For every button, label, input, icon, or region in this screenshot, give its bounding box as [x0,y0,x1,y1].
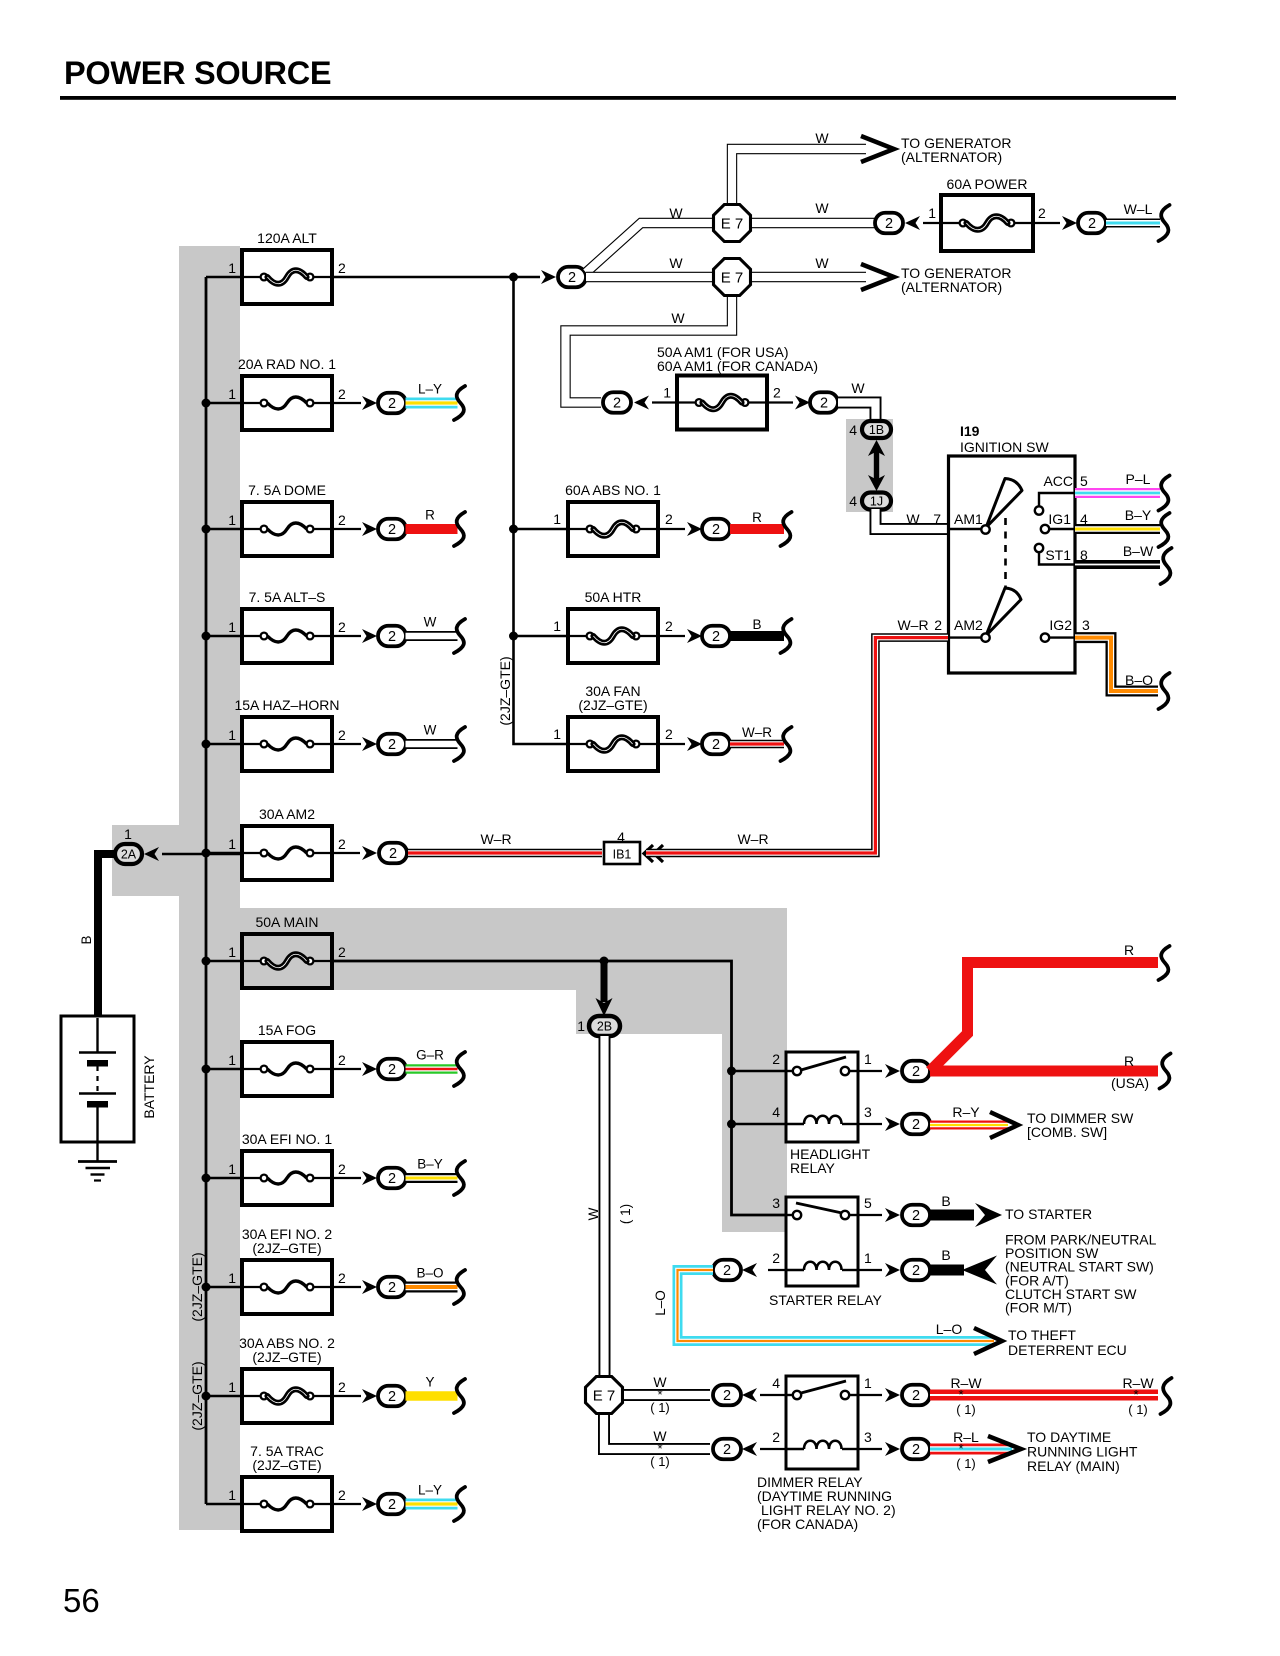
svg-text:2: 2 [772,1250,780,1266]
svg-text:2: 2 [613,396,621,412]
svg-text:E 7: E 7 [721,216,744,233]
starter relay coil [786,1269,804,1271]
svg-text:2: 2 [338,386,346,402]
harness shading main vertical band [179,246,240,1530]
svg-text:R–W: R–W [950,1375,982,1391]
svg-text:1: 1 [864,1375,872,1391]
svg-text:2: 2 [388,1171,396,1187]
svg-text:2: 2 [388,1497,396,1513]
ground symbol [78,1160,117,1163]
wire W from junction connector to E7 no.2 [586,272,712,282]
svg-text:120A ALT: 120A ALT [257,230,317,246]
connector 2 dimmer pin 1 [858,1394,882,1396]
svg-text:2: 2 [912,1442,920,1458]
harness shading 1B-1J junction block [846,419,893,512]
svg-text:R: R [1124,942,1134,958]
svg-text:2: 2 [388,737,396,753]
svg-text:B–Y: B–Y [1125,507,1152,523]
svg-text:2: 2 [388,629,396,645]
svg-text:2A: 2A [121,848,137,862]
dimmer relay coil [786,1448,804,1450]
svg-text:W: W [424,615,437,630]
svg-text:[COMB. SW]: [COMB. SW] [1027,1124,1107,1140]
svg-text:B: B [79,935,94,944]
svg-text:2: 2 [712,737,720,753]
wire output of 60A ABS NO. 1 (R) [658,528,685,530]
svg-text:P–L: P–L [1126,471,1151,487]
svg-text:W: W [671,310,685,326]
svg-text:2: 2 [772,1429,780,1445]
starter relay switch [786,1214,793,1216]
svg-text:2: 2 [338,1487,346,1503]
svg-text:(2JZ–GTE): (2JZ–GTE) [189,1361,205,1430]
svg-text:W–L: W–L [1124,201,1153,217]
node junctions to headlight relay [727,1067,736,1076]
wire output of 7. 5A DOME (R) [332,528,361,530]
svg-text:2: 2 [338,944,346,960]
svg-text:2: 2 [338,836,346,852]
ignition switch IG2 contact [1041,633,1049,641]
svg-text:30A EFI NO. 1: 30A EFI NO. 1 [242,1131,332,1147]
svg-text:1: 1 [553,726,561,742]
svg-text:W: W [669,205,683,221]
svg-text:2: 2 [912,1388,920,1404]
svg-text:1: 1 [228,1379,236,1395]
harness shading 2B connector block [576,988,787,1034]
svg-text:W: W [906,511,920,527]
svg-text:4: 4 [772,1104,780,1120]
double chevron into IB1 [644,845,653,862]
svg-text:(FOR M/T): (FOR M/T) [1005,1300,1072,1316]
svg-text:POWER SOURCE: POWER SOURCE [64,55,331,91]
svg-text:1: 1 [228,260,236,276]
svg-text:2B: 2B [597,1020,612,1034]
svg-text:TO THEFT: TO THEFT [1008,1327,1076,1343]
svg-text:1: 1 [228,944,236,960]
harness shading stub to battery connector 2A [112,825,187,896]
wire B thick battery cable [98,854,116,1018]
wire W from 1J to ignition switch AM1 [876,509,949,529]
svg-text:56: 56 [63,1582,100,1619]
wire R-L to daytime running light relay [930,1444,1012,1455]
svg-text:30A AM2: 30A AM2 [259,806,315,822]
svg-text:60A POWER: 60A POWER [947,176,1028,192]
svg-text:W–R: W–R [480,831,511,847]
connector 2 (120A ALT output) [558,267,586,288]
dimmer relay switch [786,1394,793,1396]
svg-text:4: 4 [849,422,857,438]
svg-text:7. 5A ALT–S: 7. 5A ALT–S [249,589,326,605]
ignition switch AM1 contact and lever [949,528,982,530]
svg-text:W: W [815,200,829,216]
svg-text:1: 1 [553,511,561,527]
wire output of 50A HTR (B) [658,635,685,637]
svg-text:2: 2 [338,1379,346,1395]
connector 2 headlight relay pin 1 [858,1070,882,1072]
wire W E7 no.2 down to 50A AM1 [566,297,733,403]
svg-text:B: B [941,1193,950,1209]
svg-text:4: 4 [849,493,857,509]
svg-text:L–Y: L–Y [418,1483,442,1498]
svg-text:1: 1 [124,826,132,842]
svg-text:E 7: E 7 [721,270,744,287]
svg-text:50A MAIN: 50A MAIN [255,914,318,930]
svg-text:1: 1 [864,1250,872,1266]
svg-text:( 1): ( 1) [1128,1402,1148,1417]
wire middle distribution bus (2JZ-GTE) [514,277,569,744]
svg-text:R: R [752,510,762,525]
svg-text:(2JZ–GTE): (2JZ–GTE) [497,656,513,725]
svg-text:20A RAD NO. 1: 20A RAD NO. 1 [238,356,336,372]
svg-text:2: 2 [388,1389,396,1405]
svg-text:1: 1 [228,836,236,852]
svg-text:W: W [586,1207,601,1220]
wire W from 2B down to E7 [599,1036,611,1375]
svg-text:2: 2 [388,1062,396,1078]
svg-text:R: R [425,508,435,523]
wire 120A ALT output to junction [332,276,540,279]
connector 2 dimmer pin 4 [713,1385,741,1406]
svg-text:R: R [1124,1053,1134,1069]
svg-text:STARTER RELAY: STARTER RELAY [769,1292,882,1308]
node junction to 2B [600,957,609,966]
svg-text:2: 2 [388,522,396,538]
svg-text:2: 2 [773,385,781,401]
wire battery bus vertical [205,277,208,1504]
dimmer relay box [786,1376,858,1469]
svg-text:(2JZ–GTE): (2JZ–GTE) [578,697,647,713]
headlight relay box [786,1052,858,1142]
wire R-Y to dimmer switch [930,1121,1008,1130]
wire output of 30A FAN (W–R) [658,743,685,745]
svg-text:L–Y: L–Y [418,382,442,397]
battery [61,1016,134,1142]
svg-text:3: 3 [864,1429,872,1445]
wire output of 20A RAD NO. 1 (L–Y) [332,402,361,404]
wire 30A AM2 output W-R to IB1 [332,852,360,854]
svg-text:7. 5A DOME: 7. 5A DOME [248,482,326,498]
connector 2 into 50A AM1 [603,392,631,413]
svg-text:(ALTERNATOR): (ALTERNATOR) [901,149,1002,165]
svg-text:B–Y: B–Y [417,1157,443,1172]
svg-text:2: 2 [338,512,346,528]
svg-text:1: 1 [228,1052,236,1068]
svg-text:2: 2 [912,1263,920,1279]
svg-text:2: 2 [338,260,346,276]
svg-text:1B: 1B [869,423,884,437]
svg-text:B: B [752,617,761,632]
wire W from junction connector to E7 no.1 (diagonal) [586,223,714,273]
ignition switch dashed link [1004,518,1007,604]
node junctions middle bus [509,525,518,534]
svg-text:R–L: R–L [953,1429,979,1445]
arrow TO THEFT DETERRENT ECU [974,1328,1002,1354]
svg-text:AM2: AM2 [954,617,983,633]
svg-text:2: 2 [568,270,576,286]
connector E7 bottom (octagon) [586,1377,623,1414]
connector 2 output of 50A AM1 [767,401,793,403]
harness shading 50A MAIN row band [240,908,787,990]
svg-text:B–W: B–W [1123,543,1154,559]
ignition switch ACC contact [1035,506,1043,514]
svg-text:2: 2 [1038,205,1046,221]
svg-text:2: 2 [665,511,673,527]
starter relay box [786,1197,858,1286]
svg-text:5: 5 [1080,473,1088,489]
arrow TO GENERATOR (ALTERNATOR) second [861,264,894,290]
svg-text:E 7: E 7 [593,1388,616,1405]
svg-text:1: 1 [228,1270,236,1286]
svg-text:W: W [669,255,683,271]
connector 2 into 60A POWER [875,213,903,234]
connector 2 starter relay pin 2 [768,1269,786,1271]
svg-text:W–R: W–R [897,617,928,633]
svg-text:3: 3 [1082,617,1090,633]
svg-text:L–O: L–O [653,1290,668,1316]
svg-text:2: 2 [338,1270,346,1286]
svg-text:BATTERY: BATTERY [141,1055,157,1119]
svg-text:(USA): (USA) [1111,1075,1149,1091]
svg-text:( 1): ( 1) [956,1456,976,1471]
svg-text:60A ABS NO. 1: 60A ABS NO. 1 [565,482,661,498]
svg-text:IG2: IG2 [1049,617,1072,633]
svg-text:1: 1 [663,385,671,401]
wire output of 15A FOG (G–R) [332,1068,361,1070]
connector 2 starter relay pin 5 [858,1214,882,1216]
wire output of 30A ABS NO. 2 (Y) [332,1395,361,1397]
svg-text:2: 2 [934,617,942,633]
arrow TO DIMMER SW [990,1112,1018,1138]
connector E7 no.1 (octagon) [714,205,751,242]
svg-text:1: 1 [553,618,561,634]
wire R thick to right (upper) [930,963,1158,1072]
svg-text:( 1): ( 1) [618,1204,633,1224]
svg-text:2: 2 [389,846,397,862]
svg-text:2: 2 [912,1117,920,1133]
connector 2 output of 60A POWER [1033,222,1060,224]
svg-text:W: W [851,380,865,396]
svg-text:( 1): ( 1) [956,1402,976,1417]
svg-text:1: 1 [864,1051,872,1067]
double arrow between 1B and 1J [874,448,879,483]
connector 2 dimmer pin 3 [858,1448,882,1450]
wire W E7 no.1 right to 60A POWER [752,218,875,228]
svg-text:60A AM1 (FOR CANADA): 60A AM1 (FOR CANADA) [657,358,818,374]
svg-text:3: 3 [772,1195,780,1211]
svg-text:W: W [424,723,437,738]
svg-text:( 1): ( 1) [650,1454,670,1469]
svg-text:1: 1 [228,1161,236,1177]
svg-text:*: * [958,1387,963,1402]
svg-text:*: * [1133,1387,1138,1402]
wire output of 7. 5A ALT–S (W) [332,635,361,637]
svg-text:15A FOG: 15A FOG [258,1022,316,1038]
svg-text:ACC: ACC [1043,473,1073,489]
svg-text:2: 2 [912,1064,920,1080]
svg-text:W–R: W–R [742,725,772,740]
wire W output of 50A AM1 to junction 1B [838,403,876,420]
svg-text:B–O: B–O [416,1266,443,1281]
svg-text:AM1: AM1 [954,511,983,527]
svg-text:2: 2 [665,618,673,634]
svg-text:3: 3 [864,1104,872,1120]
connector 2 starter relay pin 1 [858,1269,882,1271]
svg-text:15A HAZ–HORN: 15A HAZ–HORN [234,697,339,713]
svg-text:G–R: G–R [416,1048,444,1063]
wire 50A MAIN output bus [332,961,786,1215]
harness shading vertical strip to relays [722,1032,787,1232]
svg-text:1: 1 [928,205,936,221]
svg-text:(2JZ–GTE): (2JZ–GTE) [252,1240,321,1256]
svg-text:2: 2 [723,1442,731,1458]
svg-text:2: 2 [1088,216,1096,232]
svg-text:2: 2 [885,216,893,232]
node junction at middle bus top [509,273,518,282]
svg-text:RELAY: RELAY [790,1160,836,1176]
svg-text:2: 2 [712,522,720,538]
svg-text:(ALTERNATOR): (ALTERNATOR) [901,279,1002,295]
svg-text:1: 1 [228,512,236,528]
svg-text:1: 1 [228,1487,236,1503]
arrow into connector 2B [601,961,608,1002]
svg-text:2: 2 [820,396,828,412]
headlight relay switch [786,1070,793,1072]
wire W from E7 to dimmer relay pin 4 [624,1389,710,1401]
svg-text:(FOR CANADA): (FOR CANADA) [757,1516,858,1532]
connector E7 no.2 (octagon) [714,259,751,296]
svg-text:IGNITION SW: IGNITION SW [960,439,1049,455]
arrow TO DAYTIME RUNNING LIGHT RELAY [988,1436,1021,1462]
wire W E7 no.1 up to generator [732,149,866,203]
svg-text:2: 2 [338,1161,346,1177]
headlight relay coil [786,1123,804,1125]
svg-text:I19: I19 [960,423,980,439]
svg-text:B–O: B–O [1125,672,1153,688]
svg-text:L–O: L–O [936,1321,963,1337]
svg-text:1: 1 [577,1018,585,1034]
svg-text:(2JZ–GTE): (2JZ–GTE) [189,1252,205,1321]
svg-text:2: 2 [772,1051,780,1067]
svg-text:2: 2 [723,1263,731,1279]
svg-text:IB1: IB1 [613,848,632,862]
svg-text:50A HTR: 50A HTR [585,589,642,605]
svg-text:2: 2 [712,629,720,645]
svg-text:2: 2 [388,396,396,412]
svg-text:(2JZ–GTE): (2JZ–GTE) [252,1349,321,1365]
connector 2 headlight relay pin 3 [858,1123,882,1125]
wire W from E7 bottom to dimmer relay pin 2 [604,1415,710,1449]
wire R thick to right (USA) [930,1066,1158,1077]
svg-text:2: 2 [912,1208,920,1224]
svg-text:2: 2 [338,727,346,743]
svg-text:DETERRENT ECU: DETERRENT ECU [1008,1342,1127,1358]
svg-text:W: W [815,255,829,271]
wire B TO STARTER [930,1210,974,1221]
ignition switch ST1 contact [1035,544,1043,552]
node junctions on battery bus [202,399,211,408]
svg-text:RELAY (MAIN): RELAY (MAIN) [1027,1458,1120,1474]
svg-text:7: 7 [933,511,941,527]
svg-text:R–Y: R–Y [952,1104,980,1120]
svg-text:1: 1 [228,727,236,743]
svg-text:2: 2 [388,1280,396,1296]
wire R-W output [930,1390,1158,1401]
svg-text:2: 2 [338,619,346,635]
wire W-L output [1106,219,1160,228]
ignition switch AM2 contact and lever [949,636,982,638]
svg-text:2: 2 [665,726,673,742]
wire output of 7. 5A TRAC (L–Y) [332,1503,361,1505]
svg-text:( 1): ( 1) [650,1400,670,1415]
ignition switch IG1 contact [1041,525,1049,533]
svg-text:2: 2 [723,1388,731,1404]
svg-text:TO STARTER: TO STARTER [1005,1206,1092,1222]
svg-text:Y: Y [425,1375,434,1390]
svg-text:1J: 1J [870,495,883,509]
svg-text:W: W [815,130,829,146]
svg-text:4: 4 [772,1375,780,1391]
svg-text:5: 5 [864,1195,872,1211]
svg-text:B: B [941,1247,950,1263]
wire W E7 no.2 right to generator [752,272,866,282]
wire output of 30A EFI NO. 1 (B–Y) [332,1177,361,1179]
svg-text:1: 1 [228,386,236,402]
svg-text:*: * [958,1441,963,1456]
wire output of 30A EFI NO. 2 (B–O) [332,1286,361,1288]
svg-text:W–R: W–R [737,831,768,847]
svg-text:IG1: IG1 [1048,511,1071,527]
svg-text:1: 1 [228,619,236,635]
wire output of 15A HAZ–HORN (W) [332,743,361,745]
svg-text:ST1: ST1 [1045,547,1071,563]
connector 2 dimmer pin 2 [713,1439,741,1460]
svg-text:(2JZ–GTE): (2JZ–GTE) [252,1457,321,1473]
wire B FROM PARK/NEUTRAL [930,1265,964,1276]
svg-text:2: 2 [338,1052,346,1068]
arrow TO GENERATOR (ALTERNATOR) top [861,136,894,162]
wire L-O to theft deterrent ECU [678,1270,995,1341]
wire W-R from IB1 to ignition switch AM2 [646,638,948,853]
